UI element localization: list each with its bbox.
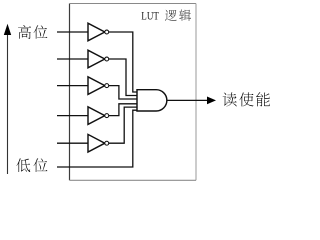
wire: inverter U1 output to AND gate input — [109, 32, 137, 92]
LUT logic block boundary — [70, 4, 197, 181]
address-order arrow shaft — [7, 34, 9, 174]
label 低位 (low bits) — [16, 158, 47, 172]
inverter U2 — [88, 50, 109, 68]
block title text "逻辑" — [165, 10, 191, 21]
inverter U1 — [88, 23, 109, 41]
wire: inverter U4 output to AND gate input — [109, 104, 137, 116]
wire: inverter U5 output to AND gate input — [109, 107, 137, 143]
svg-text:LUT: LUT — [141, 9, 159, 23]
output arrow head — [207, 97, 216, 105]
wire: input stub row 2 — [57, 58, 88, 60]
inverter U3 — [88, 77, 109, 95]
address-order arrow head — [4, 24, 11, 35]
wire: input stub row 5 — [57, 142, 88, 144]
wire: input stub row 4 — [57, 115, 88, 117]
wire: input stub row 3 — [57, 85, 88, 87]
label 高位 (high bits) — [18, 25, 47, 39]
AND gate U6 — [137, 90, 167, 111]
wire: input stub row 1 — [57, 31, 88, 33]
label 读使能 (read enable) — [223, 92, 270, 106]
inverter U4 — [88, 107, 109, 125]
wire: AND gate output (read enable) — [167, 99, 208, 101]
inverter U5 — [88, 134, 109, 152]
wire: low-bit direct input to AND gate — [57, 110, 137, 167]
wire: inverter U3 output to AND gate input — [109, 86, 137, 99]
wire: inverter U2 output to AND gate input — [109, 59, 137, 96]
